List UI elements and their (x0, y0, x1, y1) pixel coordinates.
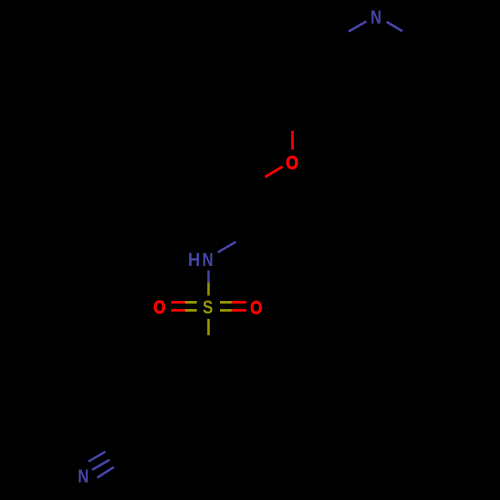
bond N1-C2 blue half (387, 22, 403, 31)
svg-text:N: N (371, 6, 382, 27)
nitrile triple bond, middle line nitrogen half (92, 460, 110, 470)
bond CH2-NH blue half (218, 242, 236, 253)
quinoline ring bonds (carbon halves, black on black) (216, 31, 429, 139)
benzene ring (carbon, black on black) (136, 335, 258, 478)
svg-text:H: H (188, 249, 200, 270)
nitrile triple bond, upper line nitrogen half (89, 452, 106, 462)
svg-text:O: O (154, 296, 166, 317)
double bond S=O right, sulfur halves (220, 301, 232, 304)
svg-text:S: S (203, 296, 213, 317)
bond N-S blue half (207, 270, 209, 282)
nitrile triple bond, lower line nitrogen half (97, 467, 114, 478)
svg-text:N: N (78, 466, 89, 487)
nitrile triple bond, carbon halves (black) (105, 442, 130, 467)
double bond S=O left, sulfur halves (185, 301, 197, 304)
bond N-S sulfur half (207, 282, 209, 295)
svg-text:O: O (250, 297, 262, 318)
double bond S=O left, oxygen halves (171, 301, 185, 304)
antialias mode hint (invisible) (0, 0, 1, 1)
bond S-C(aryl) sulfur half (207, 319, 210, 336)
bond O-CH2 carbon half + chain carbons (black) (236, 177, 265, 242)
bond N1-C8a blue half (349, 21, 367, 31)
bond C5-O red half (291, 131, 294, 150)
svg-text:O: O (286, 152, 299, 173)
svg-text:N: N (202, 249, 213, 270)
bond O-CH2 red half (265, 167, 282, 178)
double bond S=O right, oxygen halves (232, 301, 247, 304)
